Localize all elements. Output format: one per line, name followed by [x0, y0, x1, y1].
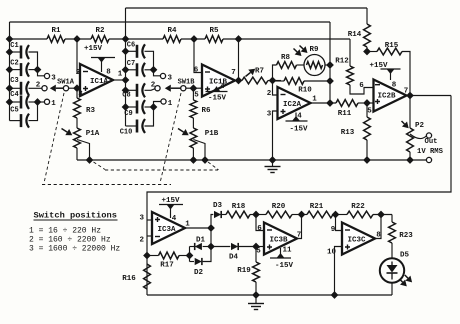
- diode D2: [190, 247, 212, 278]
- dashed gang P1A: [94, 162, 106, 170]
- svg-text:C2: C2: [10, 60, 18, 68]
- node R1-R2 junction: [74, 36, 81, 43]
- node C2 tap: [6, 66, 13, 73]
- photoresistor R9 (LDR): [294, 46, 326, 76]
- svg-text:R21: R21: [310, 203, 324, 211]
- resistor R1: [47, 27, 65, 42]
- op-amp IC2B: [374, 80, 407, 112]
- node R17-box junction: [144, 252, 151, 259]
- diode D4: [211, 243, 256, 262]
- node rail2-R2R4 junction: [122, 36, 129, 43]
- note line 1: [29, 227, 101, 236]
- switch contact 3 (SW1A): [44, 73, 56, 82]
- capacitor C2: [10, 60, 38, 77]
- wire output down to D1 row: [210, 228, 212, 247]
- svg-text:IC2A: IC2A: [283, 101, 302, 109]
- node pin10-rail junction: [331, 292, 338, 299]
- svg-text:3 = 1600 ÷ 22000 Hz: 3 = 1600 ÷ 22000 Hz: [29, 245, 120, 254]
- resistor R16: [122, 264, 150, 289]
- resistor R2: [91, 27, 109, 42]
- wire IC2B output: [407, 95, 452, 97]
- note line 3: [29, 245, 120, 254]
- label IC3A pin 1: [185, 221, 190, 229]
- node C9-C10 join: [150, 104, 157, 111]
- svg-text:R20: R20: [272, 203, 286, 211]
- power +15V IC3A: [159, 197, 183, 218]
- capacitor C8: [122, 83, 155, 99]
- node IC3B output junction: [298, 211, 305, 218]
- svg-text:8: 8: [392, 82, 397, 90]
- capacitor C9: [124, 100, 153, 118]
- svg-text:+15V: +15V: [161, 197, 180, 205]
- wire R8 to R9: [297, 64, 305, 66]
- diode D3: [213, 202, 223, 218]
- svg-text:IC3A: IC3A: [157, 226, 176, 234]
- resistor R11: [336, 100, 358, 118]
- wire node up to R8: [273, 65, 277, 81]
- capacitor C5: [10, 102, 38, 128]
- dashed gang SW1A: [44, 93, 64, 183]
- svg-text:4: 4: [172, 215, 177, 223]
- diode D1: [190, 237, 212, 251]
- wire R11 to pin5 node: [358, 102, 374, 104]
- capacitor C1: [10, 42, 38, 70]
- wire SW1B to pin5 node: [186, 87, 194, 89]
- svg-text:R4: R4: [167, 27, 177, 35]
- svg-text:2: 2: [36, 82, 41, 90]
- dashed gang switch bus: [42, 184, 171, 186]
- wire C9C10 to contact 1: [154, 102, 162, 108]
- wire IC2A output: [311, 102, 337, 104]
- node D1-D4 junction: [208, 243, 215, 250]
- svg-text:D2: D2: [194, 269, 204, 277]
- resistor R18: [226, 203, 250, 218]
- capacitor C7: [126, 60, 154, 77]
- wire R4-R5 segment: [181, 38, 205, 40]
- wire pin5 stub: [193, 87, 202, 89]
- wire P2 wiper to output terminal: [410, 134, 426, 139]
- wire R10 left: [273, 80, 285, 82]
- label IC1B pin 4: [220, 83, 225, 91]
- node pin3-rail junction: [269, 157, 276, 164]
- node C8 tap: [122, 87, 129, 94]
- svg-text:R15: R15: [385, 42, 399, 50]
- svg-text:R19: R19: [237, 267, 251, 275]
- svg-text:R2: R2: [95, 27, 105, 35]
- ground bottom section: [248, 295, 264, 310]
- svg-text:1: 1: [118, 71, 123, 79]
- wire R7 to node: [268, 80, 281, 82]
- terminal Out: [417, 133, 444, 156]
- node C4-C5 join: [34, 99, 41, 106]
- potentiometer P1B: [178, 128, 219, 148]
- wire R22 to R23: [373, 214, 392, 216]
- wire R1-R2 segment: [65, 38, 91, 40]
- wire pin3 stub: [77, 87, 80, 89]
- op-amp IC2A: [278, 87, 311, 119]
- svg-text:1: 1: [51, 100, 56, 108]
- node IC1A pin3 junction: [74, 85, 81, 92]
- svg-text:IC3B: IC3B: [269, 237, 288, 245]
- node P2-rail junction: [407, 157, 414, 164]
- resistor R8: [277, 54, 297, 68]
- resistor R13: [341, 103, 371, 160]
- label IC3C pin 9: [331, 226, 336, 234]
- power +15V IC1A: [84, 45, 115, 72]
- wire R4R5 to IC1B pin6: [194, 39, 202, 73]
- capacitor C10: [120, 107, 154, 137]
- wire pin5 stub IC3B: [256, 246, 264, 248]
- node R13-rail junction: [364, 157, 371, 164]
- svg-text:R6: R6: [201, 107, 211, 115]
- svg-text:11: 11: [282, 247, 292, 255]
- wire IC3A pin3 stub: [147, 219, 152, 221]
- wire R5 to R12 top: [223, 38, 350, 40]
- resistor R15: [367, 42, 410, 96]
- svg-text:R22: R22: [351, 203, 365, 211]
- wire main feedback bus (IC2A output loop to C-bank rail): [10, 21, 331, 23]
- node C7 tap: [122, 67, 129, 74]
- svg-text:7: 7: [231, 69, 236, 77]
- svg-text:3: 3: [140, 215, 145, 223]
- svg-text:C10: C10: [120, 129, 133, 137]
- power +15V IC2B: [369, 62, 400, 80]
- svg-text:1: 1: [312, 96, 317, 104]
- node C4 tap: [6, 99, 13, 106]
- node D4-R19-pin5 junction: [253, 243, 260, 250]
- label IC1A pin 2: [76, 69, 81, 77]
- wire output up to D3 row: [211, 215, 213, 229]
- wire C4C5 to contact 1: [38, 101, 45, 103]
- label IC2A pin 2: [267, 90, 272, 98]
- ground top section: [265, 160, 281, 173]
- wire D5 to rail: [391, 283, 393, 295]
- resistor R3: [74, 88, 96, 118]
- wire R5 feedback vertical: [238, 39, 240, 81]
- switch contact 1 (SW1B): [161, 99, 173, 108]
- svg-text:R7: R7: [255, 68, 264, 76]
- switch contact 1 (SW1A): [44, 99, 56, 108]
- svg-text:C1: C1: [10, 42, 18, 50]
- label IC3A pin 2: [140, 237, 145, 245]
- svg-text:R14: R14: [348, 31, 362, 39]
- svg-text:5: 5: [256, 248, 261, 256]
- switch SW1A wiper: [50, 79, 75, 92]
- svg-text:P1A: P1A: [86, 130, 100, 138]
- LED D5: [380, 252, 410, 283]
- label IC1B pin 5: [194, 92, 199, 100]
- resistor R12: [335, 39, 373, 94]
- node R10-feedback junction: [327, 78, 334, 85]
- node R15 to IC2B output: [407, 92, 414, 99]
- node C9 tap: [122, 104, 129, 111]
- svg-text:Switch positions: Switch positions: [34, 211, 117, 221]
- node R9-feedback junction: [327, 62, 334, 69]
- node C6-C7 join: [150, 67, 157, 74]
- node R18-R20-pin6 junction: [253, 211, 260, 218]
- node R14-R15 junction: [364, 48, 371, 55]
- svg-text:3: 3: [78, 91, 83, 99]
- node C3 tap: [6, 85, 13, 92]
- node P1B wiper-rail: [202, 157, 209, 164]
- svg-text:R8: R8: [281, 54, 291, 62]
- node IC3A output junction: [208, 225, 215, 232]
- svg-text:7: 7: [404, 88, 409, 96]
- svg-text:1: 1: [185, 221, 190, 229]
- svg-text:C4: C4: [10, 91, 18, 99]
- svg-text:4: 4: [220, 83, 225, 91]
- node R22-IC3C output junction: [378, 211, 385, 218]
- node P1A wiper-rail: [86, 157, 93, 164]
- svg-text:-15V: -15V: [275, 262, 294, 270]
- wire IC3C output: [375, 215, 381, 239]
- label IC2B pin 6: [359, 82, 364, 90]
- node R11-R13-pin5 junction: [364, 100, 371, 107]
- svg-text:2 = 160 ÷ 2200 Hz: 2 = 160 ÷ 2200 Hz: [29, 236, 111, 245]
- label IC3B pin 5: [256, 248, 261, 256]
- wire feedback vertical x330: [329, 22, 331, 103]
- wire R9 to vertical: [325, 64, 330, 66]
- resistor R17: [147, 252, 190, 269]
- wire R3 to P1A: [76, 118, 78, 128]
- svg-text:P2: P2: [415, 122, 425, 130]
- label IC3C pin 10: [327, 249, 337, 257]
- svg-text:R12: R12: [335, 58, 349, 66]
- label IC1B pin 6: [194, 67, 199, 75]
- wire rail node B (IC1A out): [125, 8, 127, 126]
- switch contact 2 (SW1A): [36, 82, 47, 91]
- wire R6 to P1B: [192, 118, 194, 128]
- wire SW1A to pin3 node: [69, 87, 77, 89]
- op-amp IC3B: [264, 223, 297, 255]
- svg-text:C6: C6: [127, 41, 135, 49]
- label IC2A pin 1: [312, 96, 317, 104]
- svg-text:D5: D5: [400, 252, 410, 260]
- svg-text:R18: R18: [232, 203, 246, 211]
- LED D5 emission arrows: [400, 275, 413, 286]
- capacitor C3: [10, 77, 42, 95]
- node R5-feedback junction: [235, 36, 242, 43]
- wire C1C2 to contact 3: [38, 70, 45, 76]
- power -15V IC2A: [286, 113, 308, 134]
- resistor R4: [163, 27, 181, 42]
- wire IC3B output: [297, 215, 302, 239]
- dashed gang SW1B: [160, 93, 181, 183]
- label IC3A pin 3: [140, 215, 145, 223]
- note line 2: [29, 236, 111, 245]
- switch contact 2 (SW1B): [151, 82, 160, 91]
- svg-text:IC3C: IC3C: [347, 237, 366, 245]
- wire pin10 to rail: [335, 247, 343, 296]
- wire P1B wiper tap: [193, 140, 205, 161]
- wire pin6 riser: [256, 215, 264, 231]
- svg-text:R5: R5: [209, 27, 219, 35]
- terminal Out return: [426, 157, 431, 162]
- op-amp IC1A: [80, 64, 113, 96]
- wire C6C7 to contact 3: [154, 70, 161, 76]
- label IC3C pin 8: [376, 232, 381, 240]
- capacitor C6: [126, 41, 154, 70]
- svg-text:D3: D3: [213, 202, 223, 210]
- svg-text:P1B: P1B: [205, 130, 219, 138]
- wire R10 right: [304, 80, 330, 82]
- dashed gang P1B: [208, 162, 219, 170]
- node IC2A output junction: [327, 100, 334, 107]
- node R4-R5 junction: [191, 36, 198, 43]
- wire P1A to ground rail: [76, 148, 78, 160]
- wire R20 to R21: [292, 214, 307, 216]
- label IC1B pin 7: [231, 69, 236, 77]
- wire R1R2 to IC1A pin2: [77, 39, 80, 72]
- label IC1A pin 3: [78, 91, 83, 99]
- svg-text:3: 3: [267, 111, 272, 119]
- wire pin9 riser: [336, 215, 343, 231]
- wire bottom rail: [147, 294, 392, 296]
- svg-text:-15V: -15V: [208, 95, 227, 103]
- svg-text:R13: R13: [341, 129, 355, 137]
- resistor R6: [190, 88, 211, 118]
- node R21-R22-pin9 junction: [332, 211, 339, 218]
- node P1B bottom-rail: [190, 157, 197, 164]
- node IC1A output to rail2: [122, 77, 129, 84]
- op-amp IC3C: [342, 223, 375, 255]
- svg-text:+15V: +15V: [84, 45, 103, 53]
- svg-text:R23: R23: [399, 232, 413, 240]
- trimmer R7: [242, 68, 268, 84]
- resistor R10: [284, 78, 312, 95]
- potentiometer P1A: [62, 128, 100, 148]
- svg-text:R3: R3: [86, 107, 96, 115]
- wire IC2B out to lower box: [147, 96, 451, 296]
- label IC3B pin 11: [282, 247, 292, 255]
- node R19-rail junction: [253, 292, 260, 299]
- svg-text:1V RMS: 1V RMS: [417, 148, 444, 156]
- wire ground rail: [77, 159, 410, 161]
- node C1-C2 join: [34, 66, 41, 73]
- wire rail to out terminal: [410, 159, 426, 161]
- label IC3A pin 4: [172, 215, 177, 223]
- wire top feedback bus (IC1A output to R14): [126, 7, 368, 9]
- wire R18 to pin6 node: [250, 214, 266, 216]
- resistor R19: [237, 247, 259, 296]
- dashed gang pot bus: [105, 169, 218, 171]
- wire P1A wiper tap: [77, 140, 90, 161]
- op-amp IC3A: [152, 212, 185, 244]
- resistor R14: [348, 8, 371, 52]
- resistor R21: [307, 203, 333, 218]
- svg-text:IC2B: IC2B: [377, 93, 396, 101]
- wire IC1B output: [235, 80, 242, 82]
- svg-text:C3: C3: [10, 77, 18, 85]
- label IC2A pin 4: [297, 113, 302, 121]
- wire IC3A output: [185, 227, 211, 229]
- svg-text:-15V: -15V: [289, 126, 308, 134]
- resistor R23: [389, 215, 414, 259]
- node C1 tap: [6, 49, 13, 56]
- wire IC1A output: [113, 79, 126, 81]
- svg-text:R10: R10: [298, 87, 312, 95]
- switch contact 3 (SW1B): [160, 73, 172, 82]
- label IC3B pin 7: [297, 232, 302, 240]
- svg-text:5: 5: [367, 108, 372, 116]
- svg-text:D1: D1: [196, 237, 206, 245]
- svg-text:D4: D4: [229, 254, 239, 262]
- svg-text:Out: Out: [425, 138, 438, 146]
- note heading: [34, 211, 118, 221]
- svg-text:1: 1: [168, 100, 173, 108]
- svg-text:R17: R17: [160, 262, 174, 270]
- label IC1A pin 1: [118, 71, 123, 79]
- node IC1B output junction: [235, 77, 242, 84]
- svg-text:C7: C7: [127, 60, 135, 68]
- op-amp IC1B: [202, 65, 235, 97]
- potentiometer P2: [402, 96, 425, 161]
- svg-text:6: 6: [359, 82, 364, 90]
- wire IC2A pin3 to ground rail: [273, 111, 278, 160]
- resistor R22: [347, 203, 373, 218]
- node R7-R8-R10 junction: [269, 77, 276, 84]
- svg-text:R1: R1: [51, 27, 61, 35]
- capacitor C4: [10, 91, 38, 109]
- resistor R5: [205, 27, 223, 42]
- svg-text:+15V: +15V: [369, 62, 388, 70]
- label IC2A pin 3: [267, 111, 272, 119]
- svg-text:SW1A: SW1A: [57, 79, 75, 87]
- svg-text:6: 6: [257, 225, 262, 233]
- svg-text:2: 2: [151, 82, 156, 90]
- svg-text:5: 5: [194, 92, 199, 100]
- label IC1A pin 8: [106, 69, 111, 77]
- label IC2B pin 7: [404, 88, 409, 96]
- node rail-R1 junction: [6, 36, 13, 43]
- svg-text:1 = 16 ÷ 220 Hz: 1 = 16 ÷ 220 Hz: [29, 227, 101, 236]
- svg-text:3: 3: [168, 75, 173, 83]
- wire left rail node A: [9, 22, 11, 121]
- svg-text:C5: C5: [10, 107, 18, 115]
- svg-text:3: 3: [51, 75, 56, 83]
- node IC1B pin5 junction: [190, 85, 197, 92]
- wire node to IC2A pin2: [273, 81, 278, 96]
- svg-text:2: 2: [267, 90, 272, 98]
- svg-text:2: 2: [140, 237, 145, 245]
- svg-text:R9: R9: [309, 46, 319, 54]
- svg-text:C9: C9: [124, 110, 132, 118]
- power -15V IC3B: [270, 248, 293, 270]
- wire R21 to R22: [333, 214, 347, 216]
- svg-text:R11: R11: [338, 110, 352, 118]
- svg-text:IC1A: IC1A: [90, 78, 109, 86]
- wire R1 row segment: [10, 38, 48, 40]
- node C6 tap: [122, 48, 129, 55]
- wire P1B to ground rail: [192, 148, 194, 160]
- svg-text:8: 8: [106, 69, 111, 77]
- wire R2 to rail2: [109, 38, 163, 40]
- power -15V IC1B: [206, 87, 228, 103]
- switch SW1B wiper: [165, 79, 195, 92]
- wire D1-D2 left loop: [189, 247, 191, 262]
- resistor R20: [266, 203, 292, 218]
- label IC3B pin 6: [257, 225, 262, 233]
- svg-text:R16: R16: [122, 275, 136, 283]
- wire D3 to R18: [222, 214, 226, 216]
- wire IC3A pin2 stub: [147, 235, 152, 237]
- node R17-diode junction: [186, 252, 193, 259]
- label IC2B pin 8: [392, 82, 397, 90]
- label IC2B pin 5: [367, 108, 372, 116]
